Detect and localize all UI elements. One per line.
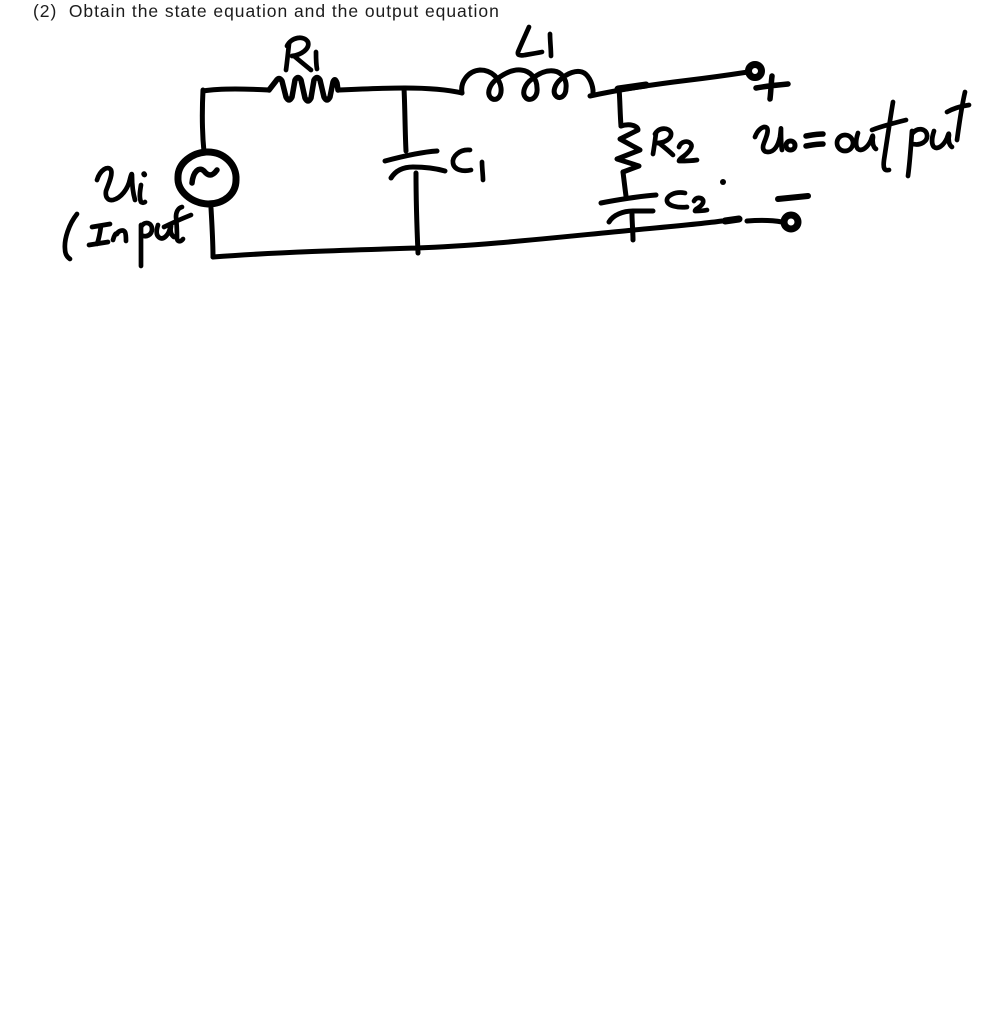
resistor R2 (617, 125, 640, 172)
wire: source bottom to bottom-left corner (211, 208, 213, 257)
plus sign (756, 76, 788, 99)
wire: top rail from R1 to L1 through node C1 (339, 88, 462, 93)
label Vi (97, 168, 145, 203)
inductor L1 (462, 70, 593, 100)
wire: overlap blob after R2 junction (618, 85, 646, 89)
label L1 (518, 27, 551, 56)
wire: bottom rail overshoot dash (725, 219, 739, 221)
wire: left vertical from top rail to source top (202, 90, 204, 152)
capacitor C1 lead to bottom rail (416, 173, 418, 253)
source tilde (192, 169, 217, 183)
capacitor C2 top plate (601, 195, 656, 203)
label R2 (653, 129, 697, 161)
output + terminal ring (749, 65, 762, 78)
label Vo = output (755, 92, 969, 176)
wire: top rail from L1 to output + terminal (590, 72, 748, 96)
resistor R2 lead to C2 (623, 172, 626, 196)
wire: top rail from left corner to R1 (203, 89, 269, 91)
capacitor C2 bottom plate (609, 211, 653, 222)
capacitor C1 top plate (385, 151, 437, 161)
capacitor C1 lead from top rail (404, 88, 406, 151)
capacitor C2 lead through bottom rail (632, 214, 633, 240)
wire: bottom rail (213, 221, 722, 257)
wire: bottom rail to - terminal (747, 220, 782, 222)
label R1 (286, 38, 317, 70)
label C1 (453, 150, 483, 180)
resistor R1 (269, 78, 338, 102)
label (Input (65, 207, 191, 266)
stray ink dot (720, 179, 726, 185)
voltage source Vi circle (178, 152, 236, 204)
minus sign (778, 196, 808, 199)
output - terminal ring (784, 215, 798, 229)
label C2 (667, 193, 707, 211)
resistor R2 lead from top rail (619, 88, 621, 126)
capacitor C1 bottom plate (391, 167, 445, 178)
